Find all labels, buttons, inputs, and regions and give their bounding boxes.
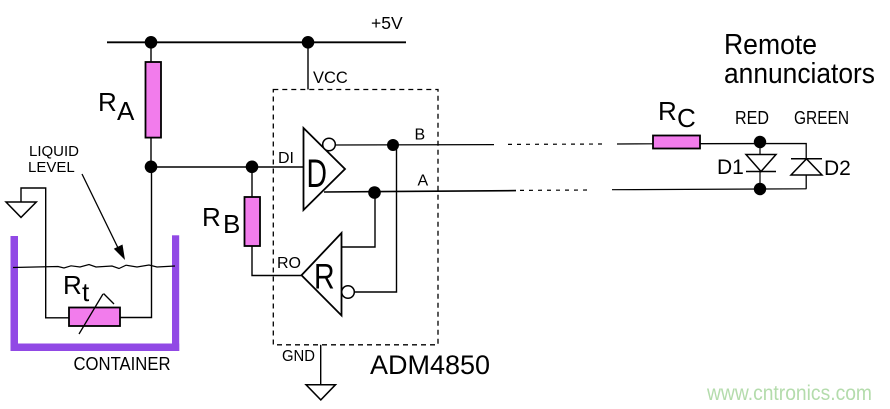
label RB [202,202,240,239]
junction dot D1 bottom [754,183,766,195]
svg-text:+5V: +5V [371,13,403,33]
bubble on receiver input [342,286,355,299]
wire left ground to Rt [21,188,69,318]
label Rt [63,270,90,307]
wire B to receiver bubble [354,145,396,292]
wire A solid right [612,188,807,191]
container bottom [11,344,180,352]
wire node row [151,166,252,168]
resistor RC [653,136,700,149]
wire VCC drop [307,42,309,89]
wire Rt right lead [120,167,152,318]
svg-text:R: R [98,87,117,117]
svg-text:LEVEL: LEVEL [28,159,75,176]
LED D2 [791,159,822,175]
svg-text:Remote: Remote [724,29,817,61]
bubble on driver output B [323,138,336,151]
junction dot A [368,186,381,199]
resistor RA [146,62,162,138]
svg-text:RO: RO [277,255,301,272]
wire RB top lead [251,167,253,197]
wire +5V rail [107,41,406,43]
label RC [658,96,696,133]
junction dot node DI-left [145,161,158,174]
svg-text:D2: D2 [824,157,851,180]
svg-text:C: C [677,103,696,133]
junction dot rail-VCC [302,36,315,49]
IC ADM4850 dashed box [273,90,438,345]
svg-text:R: R [63,270,82,300]
svg-text:D: D [307,152,328,196]
thermistor arrow diagonal [79,294,114,335]
svg-text:CONTAINER: CONTAINER [74,354,171,374]
label RA [98,87,135,126]
svg-text:RED: RED [735,108,769,128]
svg-text:A: A [418,173,429,190]
liquid level wavy line [13,265,175,269]
svg-text:annunciators: annunciators [724,58,875,90]
svg-text:R: R [314,258,335,297]
driver D triangle [304,128,346,210]
container left wall [11,236,19,351]
wire A dashed middle [520,189,590,191]
svg-text:B: B [223,209,240,239]
wire B solid to RC [617,143,653,145]
LED D1 [746,155,776,172]
wire RA bottom lead [150,138,152,167]
svg-text:A: A [117,96,135,126]
annotation arrow to liquid level [82,174,125,260]
wire D1 top stub [759,142,761,155]
wire A output from driver [324,191,516,192]
ground symbol bottom [306,385,336,400]
wire B output solid left [335,144,494,146]
svg-text:B: B [415,127,426,144]
svg-text:www.cntronics.com: www.cntronics.com [706,382,872,405]
wire D2 bottom stub [805,175,807,189]
container right wall [172,235,179,351]
svg-text:D1: D1 [717,156,744,179]
svg-text:LIQUID: LIQUID [29,143,79,160]
wire D1 bottom stub [759,172,761,190]
wire A to receiver input [342,192,376,247]
wire B dashed middle [508,143,606,145]
label Remote annunciators [724,29,875,90]
wire DI input [252,166,304,168]
svg-text:VCC: VCC [313,69,348,87]
svg-text:ADM4850: ADM4850 [370,350,490,380]
junction dot D1 top [754,136,766,148]
wire GND lead [320,345,322,385]
junction dot node DI-mid [246,161,259,174]
junction dot rail-RA [145,36,158,49]
receiver R triangle [302,233,342,316]
resistor RB [245,197,261,246]
ground symbol left [6,202,36,217]
wire RA top lead [150,42,152,62]
svg-text:GND: GND [282,348,315,365]
svg-text:R: R [658,96,677,126]
junction dot B [387,139,399,151]
svg-text:DI: DI [278,150,294,167]
thermistor Rt [69,308,120,327]
svg-text:t: t [82,277,90,307]
wire RC to D1 and D2 branch [700,144,806,159]
svg-text:R: R [202,202,221,232]
label LIQUID LEVEL [28,143,79,176]
svg-text:GREEN: GREEN [794,108,849,128]
wire RB bottom lead [252,246,301,276]
